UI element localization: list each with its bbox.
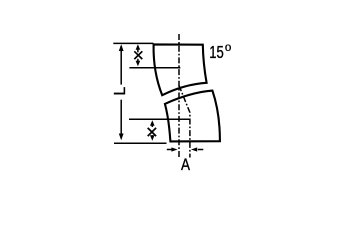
- dimension A: right arrow: [198, 149, 204, 151]
- pipe gore 1 (top segment): [154, 44, 207, 95]
- arrowhead L bottom: [119, 134, 124, 141]
- svg-text:0: 0: [225, 42, 231, 53]
- X glyph bottom: [148, 128, 156, 136]
- extension line above bottom gore end (X dim): [129, 118, 190, 120]
- dimension X top: down arrow: [137, 59, 139, 64]
- dimension X top: up arrow: [137, 47, 139, 52]
- centerline vertical (top pipe axis): [178, 34, 180, 158]
- svg-text:15: 15: [209, 42, 224, 62]
- extension line below top gore (X dim): [129, 67, 180, 69]
- extension line bottom (for L and X dims): [114, 142, 167, 144]
- arrowhead L top: [119, 44, 124, 51]
- X glyph top: [134, 51, 142, 59]
- svg-text:A: A: [181, 156, 190, 174]
- centerline offset (bottom pipe axis, slanted then vertical): [179, 86, 190, 158]
- pipe gore 2 (bottom segment): [165, 91, 220, 142]
- dimension X bottom: down arrow: [151, 135, 153, 138]
- svg-text:L: L: [112, 87, 129, 96]
- dimension X bottom: up arrow: [151, 123, 153, 128]
- dimension A: left arrow: [167, 149, 172, 151]
- dimension line L (vertical, broken): [120, 46, 122, 85]
- extension line top (for L and X dims): [113, 42, 153, 44]
